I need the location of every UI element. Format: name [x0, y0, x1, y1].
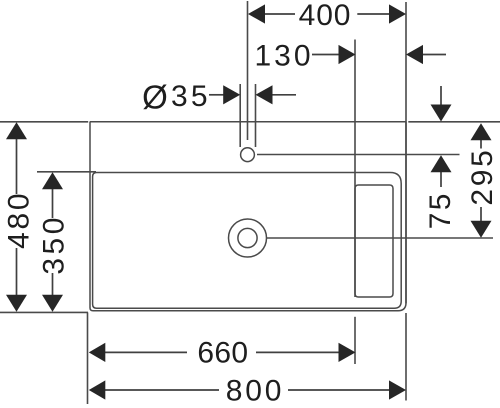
- wire hole edge line left x=240: [239, 84, 241, 147]
- dimension 75: [440, 86, 442, 187]
- svg-text:800: 800: [226, 374, 284, 407]
- arrow 295 top pointing up: [471, 123, 492, 140]
- shelf outline right: [355, 185, 393, 297]
- svg-text:350: 350: [37, 214, 70, 275]
- arrow d35 pointing left: [256, 85, 273, 104]
- arrow 800 left: [89, 380, 106, 399]
- arrow 130 left pointing right: [339, 45, 356, 64]
- arrow 400 right: [389, 4, 406, 23]
- wire inner rim extension line left (350 top): [37, 171, 96, 173]
- wire faucet centerline x=247.5: [247, 1, 249, 140]
- drain outer circle: [229, 219, 267, 257]
- arrow 660 right: [339, 343, 356, 362]
- wire extension vertical x=355 upper: [354, 40, 356, 298]
- svg-text:480: 480: [2, 191, 35, 249]
- wire bottom extension line left: [0, 311, 88, 313]
- wire top edge extension line right: [408, 121, 500, 123]
- svg-text:75: 75: [424, 191, 457, 229]
- wire top edge extension line left: [0, 121, 88, 123]
- dimension diameter 35: [209, 94, 296, 96]
- arrow 480 bottom: [6, 295, 27, 312]
- dimension 295: [480, 140, 482, 222]
- arrow 350 bottom: [42, 295, 63, 312]
- washbasin outer outline: [90, 122, 406, 311]
- arrow 75 top pointing down: [431, 105, 452, 122]
- wire faucet hole leader line: [257, 154, 460, 156]
- arrow 480 top: [6, 122, 27, 139]
- arrow 295 bottom pointing down: [471, 221, 492, 238]
- drain inner circle: [238, 228, 257, 247]
- arrow d35 pointing right: [223, 85, 240, 104]
- dimension 350: [52, 189, 54, 296]
- wire drain leader line: [267, 237, 494, 239]
- washbasin inner rim: [93, 173, 402, 309]
- arrow 660 left: [89, 343, 106, 362]
- svg-text:295: 295: [466, 148, 499, 206]
- wire extension vertical x=406 lower: [405, 313, 407, 401]
- dimension 660: [104, 351, 340, 353]
- svg-text:660: 660: [197, 336, 248, 369]
- faucet hole circle: [241, 148, 255, 162]
- wire hole edge line right x=255.5: [255, 84, 257, 147]
- wire extension vertical x=87.5: [87, 312, 89, 404]
- arrow 350 top: [42, 172, 63, 189]
- dimension 130: [312, 54, 446, 56]
- wire extension vertical x=355 lower: [354, 317, 356, 364]
- svg-text:Ø35: Ø35: [142, 79, 211, 116]
- dimension 800: [105, 389, 390, 391]
- svg-text:400: 400: [299, 0, 352, 32]
- svg-text:130: 130: [254, 40, 313, 73]
- arrow 130 right pointing left: [406, 45, 423, 64]
- arrow 400 left: [248, 4, 265, 23]
- dimension 480: [16, 139, 18, 296]
- wire extension vertical x=406 upper: [405, 2, 407, 303]
- arrow 75 bottom pointing up: [431, 155, 452, 172]
- dimension 400: [264, 13, 390, 15]
- arrow 800 right: [389, 380, 406, 399]
